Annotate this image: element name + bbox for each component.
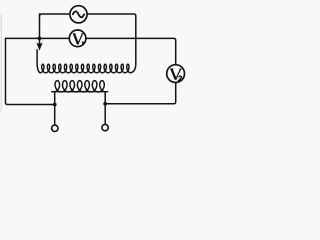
junction dot at tap / V1 wire bbox=[38, 37, 42, 41]
secondary coil L2 winding bbox=[54, 81, 106, 92]
wire: middle horizontal left segment to V1 bbox=[6, 37, 70, 39]
primary coil left lead bbox=[37, 50, 40, 73]
terminal circle right bbox=[102, 124, 108, 130]
primary coil right lead curve bbox=[131, 64, 136, 73]
junction dot bottom-right rail bbox=[103, 102, 107, 106]
primary coil L1 winding bbox=[40, 64, 131, 73]
voltmeter V2 circle bbox=[167, 65, 185, 83]
terminal circle left bbox=[52, 125, 58, 131]
voltmeter V1 label V bbox=[73, 34, 84, 44]
wire: AC source right to corner, down to primary coil right end bbox=[87, 14, 136, 64]
secondary coil bottom line bbox=[52, 91, 108, 93]
AC sine symbol bbox=[73, 11, 84, 17]
voltmeter V2 label V bbox=[170, 69, 181, 80]
AC source circle bbox=[70, 6, 87, 23]
wire: top run from tap corner to AC source bbox=[40, 14, 70, 16]
wire: secondary left lead down to terminal bbox=[54, 92, 56, 125]
arrowhead of sliding tap bbox=[37, 43, 42, 50]
junction dot bottom-left rail bbox=[53, 103, 57, 107]
voltmeter V1 circle bbox=[69, 30, 86, 47]
faint page edge line left bbox=[0, 14, 2, 112]
wire: secondary right lead down to terminal bbox=[104, 92, 106, 125]
voltmeter V1 subscript 1 bbox=[82, 42, 83, 46]
wire: sliding-tap vertical bbox=[39, 14, 41, 44]
voltmeter V2 subscript 2 bbox=[179, 76, 183, 80]
wire: left vertical down to bottom-left rail bbox=[6, 38, 55, 104]
wire: V2 bottom lead down, left along bottom-right rail bbox=[105, 82, 176, 104]
wire: middle horizontal V1 to V2 corner, down to V2 bbox=[86, 38, 176, 65]
